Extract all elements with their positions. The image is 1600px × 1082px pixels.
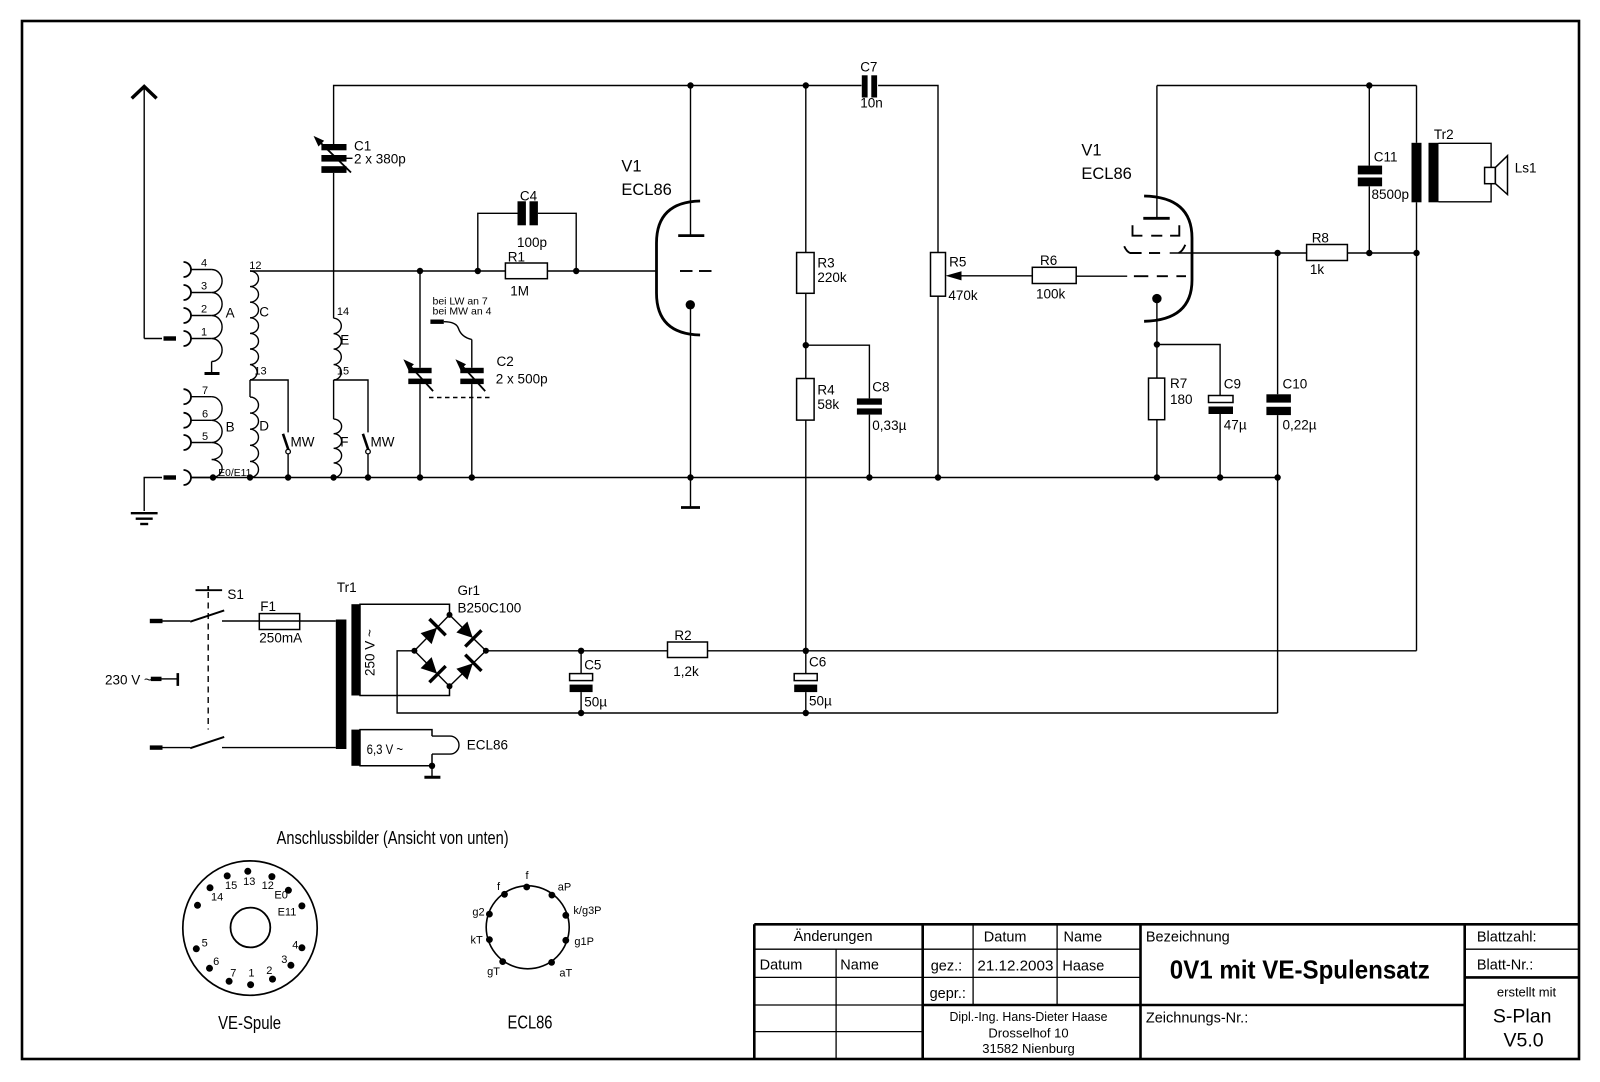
svg-text:0,22µ: 0,22µ: [1283, 417, 1317, 432]
resistor R1: [505, 263, 547, 279]
svg-text:F1: F1: [260, 599, 276, 614]
svg-text:12: 12: [249, 260, 261, 272]
diode D4 bottom-right: [454, 655, 482, 683]
coil F: [334, 380, 342, 478]
wire C1 top to rail: [334, 86, 691, 145]
socket connector E0/E11: [184, 470, 192, 485]
junction bus coilF: [330, 474, 336, 480]
capacitor C7: [862, 75, 877, 97]
junction grid C2a: [417, 268, 423, 274]
svg-text:1k: 1k: [1310, 262, 1325, 277]
switch MW1: [283, 434, 290, 478]
svg-text:Blattzahl:: Blattzahl:: [1477, 929, 1537, 945]
junction rail R3: [803, 82, 809, 88]
svg-text:ECL86: ECL86: [621, 181, 671, 199]
junction bus coilD: [247, 474, 253, 480]
control grid g1 dashes: [1134, 275, 1186, 277]
wire ground lead: [144, 478, 162, 512]
svg-text:R2: R2: [674, 628, 691, 643]
open terminal bei LW/MW: [430, 320, 443, 324]
svg-text:aP: aP: [558, 882, 571, 894]
suppressor g3 dashes: [1124, 245, 1185, 253]
svg-text:Zeichnungs-Nr.:: Zeichnungs-Nr.:: [1146, 1011, 1248, 1027]
junction cathode R7 C9: [1154, 341, 1160, 347]
svg-text:4: 4: [292, 939, 298, 951]
junction rail C11: [1366, 82, 1372, 88]
svg-text:50µ: 50µ: [584, 694, 607, 709]
svg-text:B250C100: B250C100: [458, 601, 522, 616]
junction bus R7: [1154, 474, 1160, 480]
svg-text:3: 3: [281, 954, 287, 966]
svg-text:15: 15: [337, 366, 349, 378]
svg-text:V1: V1: [1081, 142, 1101, 160]
gang coupling dashed line: [429, 397, 490, 399]
wire C7 to R5: [878, 86, 938, 253]
svg-text:230 V ~: 230 V ~: [105, 673, 152, 688]
svg-text:E11: E11: [278, 907, 297, 919]
svg-text:R5: R5: [949, 254, 966, 269]
svg-text:2 x 380p: 2 x 380p: [354, 152, 406, 167]
svg-text:C4: C4: [520, 189, 538, 204]
wire return to bus: [1277, 478, 1279, 714]
diode D1 top-left: [418, 619, 446, 647]
svg-text:100k: 100k: [1036, 287, 1066, 302]
flexible wire to C2 gang B: [444, 322, 472, 340]
svg-text:58k: 58k: [817, 397, 839, 412]
wire R3 to R4: [805, 293, 807, 378]
svg-text:S1: S1: [227, 587, 244, 602]
svg-text:Dipl.-Ing. Hans-Dieter Haase: Dipl.-Ing. Hans-Dieter Haase: [950, 1009, 1108, 1024]
svg-text:B: B: [226, 420, 235, 435]
capacitor C4 branch: [478, 213, 576, 271]
svg-text:C7: C7: [860, 59, 877, 74]
VE socket pins: [193, 868, 306, 988]
svg-text:6: 6: [213, 956, 219, 968]
svg-text:g1P: g1P: [574, 936, 594, 948]
wire antenna to coil A tap1: [144, 338, 162, 340]
wire pin13 to switch MW1: [250, 380, 288, 432]
svg-text:Datum: Datum: [760, 958, 803, 974]
svg-text:ECL86: ECL86: [1081, 165, 1131, 183]
svg-text:2: 2: [201, 304, 207, 316]
svg-text:250 V ~: 250 V ~: [363, 629, 378, 676]
junction bus R5: [935, 474, 941, 480]
svg-text:Drosselhof 10: Drosselhof 10: [988, 1026, 1068, 1041]
junction bus MW1: [285, 474, 291, 480]
svg-text:3: 3: [201, 281, 207, 293]
capacitor C6 electrolytic: [794, 651, 817, 713]
svg-text:5: 5: [202, 938, 208, 950]
svg-text:14: 14: [211, 891, 223, 903]
junction return C6: [803, 710, 809, 716]
bridge rectifier Gr1 diamond: [414, 615, 486, 686]
svg-text:13: 13: [254, 366, 266, 378]
svg-text:aT: aT: [559, 967, 572, 979]
svg-text:7: 7: [230, 967, 236, 979]
svg-text:Blatt-Nr.:: Blatt-Nr.:: [1477, 958, 1533, 974]
svg-text:C2: C2: [497, 354, 514, 369]
svg-text:C9: C9: [1224, 377, 1241, 392]
junction bus C10: [1274, 474, 1280, 480]
wire C1 bottom to coil E: [333, 173, 335, 318]
svg-text:13: 13: [243, 876, 255, 888]
plug terminal mains mid: [151, 677, 162, 681]
wire cathode to C9: [1157, 345, 1220, 396]
VE-Spule socket center hole: [231, 908, 271, 948]
junction R8 line C11: [1366, 250, 1372, 256]
svg-text:4: 4: [201, 258, 207, 270]
svg-text:g2: g2: [472, 907, 484, 919]
svg-text:Tr1: Tr1: [337, 580, 357, 595]
coil C: [250, 271, 259, 380]
svg-text:gepr.:: gepr.:: [930, 986, 966, 1002]
B+ line: [486, 650, 1417, 652]
grid line net: [250, 270, 505, 272]
winding box 250V: [360, 604, 450, 695]
socket connector tap 5: [184, 435, 192, 450]
wiper arrow R5: [946, 271, 1033, 280]
svg-text:2: 2: [266, 965, 272, 977]
svg-text:R6: R6: [1040, 253, 1057, 268]
switch MW2: [363, 434, 370, 478]
tube V1 triode envelope: [657, 201, 701, 335]
diode D3 bottom-left: [418, 655, 446, 683]
wire C2b column: [471, 340, 473, 478]
svg-text:ECL86: ECL86: [508, 1013, 553, 1033]
wire R1 right to tube: [547, 270, 656, 272]
coil B: [191, 397, 222, 478]
plug terminal antenna: [164, 336, 177, 340]
junction R8 line C10: [1274, 250, 1280, 256]
top rail second stage: [1157, 85, 1417, 87]
junction bus C8: [866, 474, 872, 480]
svg-text:Haase: Haase: [1062, 959, 1104, 975]
svg-text:ECL86: ECL86: [467, 738, 508, 753]
svg-text:C5: C5: [584, 658, 601, 673]
socket connector tap 6: [184, 413, 192, 428]
svg-text:C: C: [259, 305, 269, 320]
screen grid g2 dashes: [1133, 225, 1180, 236]
plug terminal E0/E11: [164, 475, 177, 479]
svg-text:5: 5: [202, 431, 208, 443]
capacitor C5 electrolytic: [570, 651, 593, 713]
junction B+ C5: [578, 648, 584, 654]
svg-text:C11: C11: [1374, 150, 1398, 165]
title block frame: [754, 924, 1579, 1059]
svg-text:1: 1: [201, 327, 207, 339]
svg-text:Ls1: Ls1: [1515, 161, 1537, 176]
resistor R6: [1032, 267, 1076, 283]
ECL86 socket outline: [486, 886, 569, 969]
svg-text:R1: R1: [508, 249, 525, 264]
anode V1 pentode: [1143, 86, 1169, 219]
socket connector tap 1: [184, 331, 192, 346]
svg-text:10n: 10n: [860, 96, 883, 111]
svg-text:1: 1: [248, 967, 254, 979]
variable capacitor C2 gang B: [453, 356, 486, 391]
svg-text:250mA: 250mA: [259, 630, 302, 645]
coil A: [191, 270, 222, 374]
transformer Tr1 secondary 6.3V bar: [351, 730, 360, 766]
junction bridge top: [447, 612, 453, 618]
svg-text:gT: gT: [487, 966, 500, 978]
svg-text:12: 12: [262, 880, 274, 892]
junction B+ C6 R4: [803, 648, 809, 654]
svg-text:MW: MW: [291, 435, 315, 450]
loudspeaker Ls1: [1485, 156, 1508, 195]
junction grid C4 left: [475, 268, 481, 274]
svg-text:21.12.2003: 21.12.2003: [977, 959, 1053, 975]
ground bus E0/E11: [191, 477, 1278, 479]
terminal bar mains: [162, 673, 178, 686]
tube V1 pentode envelope: [1144, 196, 1192, 321]
junction bridge right: [483, 648, 489, 654]
cathode ground bar: [681, 478, 700, 508]
junction return C5: [578, 710, 584, 716]
socket connector tap 7: [184, 389, 192, 404]
svg-text:100p: 100p: [517, 235, 547, 250]
return 0V line: [397, 651, 1278, 713]
svg-text:15: 15: [225, 880, 237, 892]
junction bridge bottom: [447, 683, 453, 689]
svg-text:14: 14: [337, 306, 349, 318]
svg-text:F: F: [340, 435, 348, 450]
svg-text:R3: R3: [817, 256, 834, 271]
junction bus coilB: [210, 474, 216, 480]
svg-text:220k: 220k: [817, 270, 847, 285]
svg-text:470k: 470k: [948, 288, 978, 303]
svg-text:6,3 V ~: 6,3 V ~: [367, 742, 404, 757]
svg-text:8500p: 8500p: [1372, 187, 1410, 202]
svg-text:Gr1: Gr1: [458, 583, 481, 598]
variable capacitor C1: [311, 133, 353, 173]
junction bus C9: [1217, 474, 1223, 480]
svg-text:E: E: [340, 333, 349, 348]
svg-text:VE-Spule: VE-Spule: [218, 1013, 281, 1033]
socket connector tap 3: [184, 285, 192, 300]
potentiometer R5: [931, 253, 946, 297]
plug terminal mains top: [150, 619, 163, 623]
junction rail anode1: [687, 82, 693, 88]
transformer Tr1 secondary 250V bar: [351, 604, 360, 695]
svg-text:7: 7: [202, 385, 208, 397]
svg-text:47µ: 47µ: [1224, 417, 1247, 432]
socket connector tap 4: [184, 262, 192, 277]
svg-text:Name: Name: [840, 958, 879, 974]
junction R8 line Tr2: [1413, 250, 1419, 256]
wire R6 to pentode grid: [1076, 275, 1127, 277]
svg-text:6: 6: [202, 409, 208, 421]
svg-text:31582 Nienburg: 31582 Nienburg: [982, 1041, 1075, 1056]
resistor R3: [797, 253, 815, 294]
svg-text:Änderungen: Änderungen: [794, 928, 873, 945]
wire rail to Tr2 primary: [1416, 86, 1418, 143]
junction bus MW2: [365, 474, 371, 480]
svg-text:C10: C10: [1283, 377, 1308, 392]
wire Tr2 primary down to B+: [1416, 202, 1418, 651]
svg-text:bei MW an 4: bei MW an 4: [433, 306, 492, 318]
svg-text:C6: C6: [809, 655, 826, 670]
svg-text:0,33µ: 0,33µ: [872, 418, 906, 433]
junction grid C4 right: [573, 268, 579, 274]
capacitor C11: [1358, 86, 1382, 254]
wire pin15 to switch MW2: [334, 380, 368, 432]
svg-text:k/g3P: k/g3P: [573, 905, 601, 917]
top rail first stage: [691, 85, 862, 87]
svg-text:D: D: [259, 419, 269, 434]
wire R4 down to B+: [805, 420, 807, 651]
wire g3 to R8 line: [1170, 252, 1278, 254]
svg-text:180: 180: [1170, 392, 1193, 407]
svg-text:R7: R7: [1170, 376, 1187, 391]
svg-text:1M: 1M: [510, 284, 529, 299]
capacitor C8: [857, 398, 882, 414]
svg-text:Bezeichnung: Bezeichnung: [1146, 929, 1230, 945]
antenna: [132, 87, 157, 339]
svg-text:R4: R4: [817, 383, 835, 398]
grid dashes V1 triode: [680, 270, 712, 272]
diode D2 top-right: [454, 619, 482, 647]
speaker circuit wires: [1439, 143, 1492, 202]
socket connector tap 2: [184, 308, 192, 323]
svg-text:V1: V1: [621, 158, 641, 176]
wire R5 to bus: [937, 296, 939, 477]
svg-text:E0: E0: [274, 889, 287, 901]
wire junction to C8: [806, 345, 870, 398]
cathode V1 triode: [686, 300, 695, 477]
title block thin lines: [754, 924, 1579, 1059]
svg-text:A: A: [226, 306, 235, 321]
ECL86 socket pins: [486, 884, 569, 966]
cathode V1 pentode: [1152, 294, 1161, 478]
junction bus cathode V1a: [687, 474, 693, 480]
resistor R2: [668, 642, 708, 658]
svg-text:Tr2: Tr2: [1434, 127, 1454, 142]
VE socket pin labels: [202, 876, 299, 980]
fuse F1: [259, 614, 336, 630]
transformer Tr1 primary bar: [336, 620, 347, 750]
heater loop ECL86: [432, 736, 459, 754]
switch S1 pole top: [163, 610, 260, 621]
junction bus C2a: [417, 474, 423, 480]
junction bridge left: [411, 648, 417, 654]
wire C8 to bus: [868, 415, 870, 478]
plug terminal mains bottom: [150, 745, 163, 749]
wire socket to bus: [191, 477, 213, 479]
capacitor C10: [1266, 253, 1291, 478]
svg-text:2 x 500p: 2 x 500p: [496, 372, 548, 387]
resistor R3 column: [805, 86, 807, 253]
ground symbol main: [131, 513, 158, 524]
switch S1 dashed link: [196, 586, 223, 730]
transformer Tr2 secondary: [1429, 143, 1439, 203]
coil D: [250, 380, 259, 478]
resistor R4: [797, 379, 815, 421]
heater ground bar: [424, 766, 440, 777]
junction bus C2b: [469, 474, 475, 480]
svg-text:0V1 mit VE-Spulensatz: 0V1 mit VE-Spulensatz: [1170, 954, 1430, 984]
svg-text:Datum: Datum: [984, 929, 1027, 945]
svg-text:erstellt mit: erstellt mit: [1497, 985, 1557, 1000]
capacitor C9 electrolytic: [1209, 396, 1234, 478]
transformer Tr2 primary: [1412, 143, 1422, 203]
svg-text:S-Plan: S-Plan: [1493, 1006, 1552, 1028]
wire C2a column: [419, 271, 421, 478]
junction heater ground: [429, 763, 435, 769]
svg-text:Anschlussbilder (Ansicht von u: Anschlussbilder (Ansicht von unten): [277, 828, 509, 848]
svg-text:gez.:: gez.:: [931, 959, 962, 975]
ECL86 socket pin labels: [471, 870, 602, 979]
svg-text:V5.0: V5.0: [1504, 1030, 1544, 1052]
capacitor C4: [518, 201, 538, 225]
junction R3 R4 C8: [803, 342, 809, 348]
svg-text:Name: Name: [1064, 929, 1103, 945]
variable capacitor C2 gang A: [401, 356, 434, 391]
anode V1 triode: [678, 86, 704, 236]
svg-text:kT: kT: [471, 935, 484, 947]
coil E: [334, 318, 342, 380]
winding box 6.3V: [360, 730, 432, 766]
resistor R8: [1278, 245, 1417, 261]
VE-Spule socket outline: [183, 861, 317, 995]
resistor R7: [1149, 378, 1165, 420]
svg-text:R8: R8: [1312, 231, 1329, 246]
svg-text:C8: C8: [872, 380, 889, 395]
svg-text:50µ: 50µ: [809, 694, 832, 709]
svg-text:MW: MW: [371, 435, 395, 450]
svg-text:1,2k: 1,2k: [673, 664, 699, 679]
switch S1 pole bottom: [163, 737, 336, 748]
